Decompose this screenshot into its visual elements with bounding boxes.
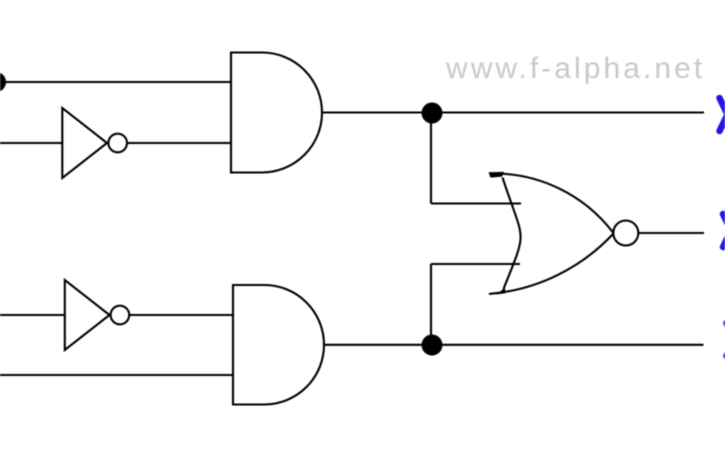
- wire U2 output to node X1 and right edge: [322, 111, 704, 113]
- wire A to AND U2 input 1: [0, 81, 231, 83]
- nor-gate U5: [489, 172, 639, 295]
- watermark www.f-alpha.net: [446, 52, 705, 86]
- wire U1 output to AND U2 input 2: [127, 142, 231, 144]
- wire input D to AND U4 input 2: [0, 374, 233, 376]
- wire U5 output to right edge: [639, 232, 704, 234]
- node X2 (junction dot on U4 output): [422, 335, 443, 356]
- wire to NOR U5 input 2: [431, 263, 520, 265]
- label X (NOR output, clipped at right edge): [723, 214, 725, 247]
- wire U3 output to AND U4 input 1: [129, 314, 233, 316]
- and-gate U2 (top): [231, 53, 322, 173]
- wire to NOR U5 input 1: [431, 202, 521, 204]
- inverter U3: [65, 280, 129, 350]
- node A (input junction dot, left edge): [0, 72, 6, 92]
- node X1 (junction dot on U2 output): [422, 103, 443, 124]
- wire node X2 up: [430, 264, 432, 345]
- and-gate U4 (bottom): [233, 285, 324, 405]
- wire input B to inverter U1: [0, 142, 63, 144]
- wire input C to inverter U3: [0, 314, 65, 316]
- wire U4 output to node X2 and right edge: [324, 344, 704, 346]
- wire node X1 down: [430, 113, 432, 204]
- label X (top output, clipped at right edge): [720, 98, 725, 131]
- inverter U1: [62, 108, 127, 178]
